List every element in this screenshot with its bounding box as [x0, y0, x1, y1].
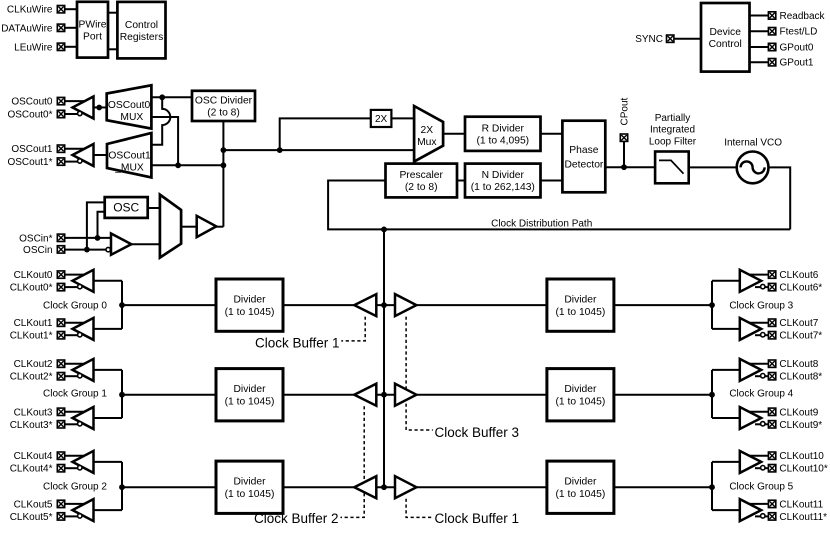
pin SYNC [667, 35, 674, 42]
junction [119, 392, 125, 398]
junction [95, 235, 101, 241]
svg-text:CLKout4*: CLKout4* [10, 464, 53, 475]
svg-text:Partially: Partially [655, 113, 691, 124]
inverting bubble [78, 422, 82, 426]
svg-text:CLKout3*: CLKout3* [10, 420, 53, 431]
inverting bubble [106, 247, 110, 251]
pin OSCin* [57, 234, 64, 241]
svg-text:CLKout9*: CLKout9* [779, 420, 822, 431]
svg-text:(2 to 8): (2 to 8) [207, 108, 240, 119]
wire [750, 15, 769, 17]
pin Readback [768, 12, 775, 19]
junction [119, 302, 125, 308]
wire [750, 30, 769, 32]
svg-text:CLKout1: CLKout1 [14, 318, 53, 329]
buffer clock buffer row2 left [354, 476, 376, 498]
wire [746, 411, 768, 413]
wire [711, 370, 713, 418]
junction [381, 392, 387, 398]
box N Divider [465, 164, 541, 198]
inverting bubble [761, 284, 765, 288]
svg-text:Prescaler: Prescaler [399, 170, 443, 181]
box R Divider [465, 117, 541, 151]
svg-text:Clock Group 5: Clock Group 5 [729, 481, 793, 492]
svg-text:CLKout5: CLKout5 [14, 499, 53, 510]
svg-text:Clock Group 4: Clock Group 4 [729, 388, 793, 399]
junction [159, 94, 165, 100]
svg-text:OSC: OSC [113, 201, 139, 215]
buffer OSCout1 output buffer [73, 144, 94, 166]
svg-text:(1 to 1045): (1 to 1045) [555, 397, 605, 408]
box OSC [105, 197, 148, 218]
wire [94, 417, 123, 419]
wire [746, 363, 768, 365]
wire [98, 212, 105, 238]
wire [689, 166, 737, 168]
callout Clock Buffer 1 (bottom) [406, 499, 433, 518]
mux OSCout0_MUX [107, 85, 152, 128]
svg-text:CLKout0*: CLKout0* [10, 283, 53, 294]
box Divider right [547, 461, 614, 513]
pin CLKout7 [768, 319, 775, 326]
svg-text:Clock Distribution Path: Clock Distribution Path [491, 219, 592, 230]
wire [674, 38, 701, 40]
inverting bubble [78, 159, 82, 163]
wire [65, 274, 88, 276]
callout Clock Buffer 2 [341, 406, 365, 517]
box 2X doubler [371, 110, 392, 127]
buffer CLKout5 output buffer [73, 499, 94, 521]
inverting bubble [78, 111, 82, 115]
pin CLKout5 [57, 500, 64, 507]
svg-text:(1 to 1045): (1 to 1045) [225, 397, 275, 408]
pin CLKout2 [57, 360, 64, 367]
svg-text:Port: Port [83, 31, 102, 42]
wire [122, 394, 216, 396]
buffer CLKout11 output buffer [740, 499, 761, 521]
svg-text:CLKout6*: CLKout6* [779, 283, 822, 294]
wire [750, 61, 769, 63]
pin CLKout6 [768, 271, 775, 278]
junction [84, 247, 90, 253]
wire row 1 [283, 394, 547, 396]
buffer CLKout7 output buffer [740, 318, 761, 340]
svg-text:N Divider: N Divider [482, 170, 525, 181]
wire [65, 46, 77, 48]
pin GPout1 [768, 59, 775, 66]
junction [709, 392, 715, 398]
wire [614, 394, 712, 396]
svg-text:CLKout9: CLKout9 [779, 407, 818, 418]
pin CLKout11 [768, 500, 775, 507]
svg-text:OSCin*: OSCin* [19, 233, 52, 244]
wire [65, 237, 111, 239]
svg-text:CLKout8*: CLKout8* [779, 372, 822, 383]
wire row 2 [283, 486, 547, 488]
junction [175, 162, 181, 168]
wire [712, 369, 740, 371]
svg-text:CLKout10: CLKout10 [779, 451, 824, 462]
svg-text:Divider: Divider [233, 384, 266, 395]
wire [65, 334, 78, 336]
pin CLKout5* [57, 513, 64, 520]
svg-text:Divider: Divider [233, 477, 266, 488]
svg-text:CLKout4: CLKout4 [14, 451, 53, 462]
svg-text:Readback: Readback [780, 11, 826, 22]
wire [108, 12, 117, 14]
wire VCO out [769, 167, 791, 229]
svg-text:CLKout11*: CLKout11* [779, 512, 827, 523]
wire [65, 249, 106, 251]
box Phase Detector [562, 121, 605, 193]
pin CLKout8 [768, 360, 775, 367]
wire clock distribution path [328, 181, 790, 230]
box Divider right [547, 279, 614, 331]
junction [381, 484, 387, 490]
svg-text:Clock Buffer 1: Clock Buffer 1 [435, 511, 520, 526]
wire [65, 322, 88, 324]
wire [750, 46, 769, 48]
wire [614, 486, 712, 488]
buffer CLKout3 output buffer [73, 407, 94, 429]
junction [119, 484, 125, 490]
svg-text:(1 to 1045): (1 to 1045) [555, 307, 605, 318]
wire [121, 370, 123, 418]
svg-text:Control: Control [709, 39, 742, 50]
svg-text:CLKout11: CLKout11 [779, 499, 823, 510]
wire [711, 462, 713, 510]
box PWire Port [77, 2, 108, 58]
svg-text:OSCout0: OSCout0 [11, 97, 53, 108]
svg-text:Divider: Divider [564, 477, 597, 488]
wire trunk [383, 229, 385, 487]
buffer CLKout6 output buffer [740, 270, 761, 292]
wire [131, 243, 160, 245]
junction [709, 484, 715, 490]
svg-text:Device: Device [709, 27, 741, 38]
pin CLKuWire [57, 6, 64, 13]
wire [65, 100, 88, 102]
buffer CLKout9 output buffer [740, 407, 761, 429]
wire [443, 133, 465, 135]
wire [541, 133, 563, 135]
wire [712, 417, 740, 419]
svg-text:OSCout1: OSCout1 [11, 144, 53, 155]
pin CLKout1 [57, 319, 64, 326]
wire [755, 423, 768, 425]
buffer clock buffer row0 right [395, 294, 416, 316]
wire row 0 [283, 304, 547, 306]
wire [121, 462, 123, 510]
wire [94, 280, 123, 282]
wire [711, 281, 713, 329]
wire [755, 375, 768, 377]
svg-text:LEuWire: LEuWire [14, 42, 53, 53]
svg-text:OSCout1: OSCout1 [108, 151, 151, 162]
pin CLKout3 [57, 408, 64, 415]
pin CLKout0* [57, 283, 64, 290]
svg-text:CLKout5*: CLKout5* [10, 512, 53, 523]
svg-text:Divider: Divider [233, 295, 266, 306]
box Control Registers [117, 2, 165, 59]
svg-text:CLKout0: CLKout0 [14, 270, 53, 281]
pin OSCin [57, 246, 64, 253]
wire [65, 455, 88, 457]
wire [65, 286, 78, 288]
svg-text:(1 to 1045): (1 to 1045) [225, 489, 275, 500]
box OSC Divider [192, 91, 255, 121]
pin CLKout11* [768, 513, 775, 520]
svg-text:CLKout6: CLKout6 [779, 270, 818, 281]
svg-text:CLKout2: CLKout2 [14, 359, 53, 370]
pin OSCout0 [57, 97, 64, 104]
wire [712, 509, 740, 511]
wire [65, 423, 78, 425]
wire [148, 207, 160, 209]
pin CLKout9* [768, 421, 775, 428]
svg-text:2X: 2X [420, 125, 433, 136]
wire [391, 117, 414, 119]
pin CLKout4* [57, 465, 64, 472]
svg-text:(1 to 4,095): (1 to 4,095) [476, 135, 529, 146]
filter box [655, 152, 689, 184]
pin LEuWire [57, 43, 64, 50]
wire [216, 226, 223, 228]
buffer input path buffer [197, 216, 217, 237]
inverting bubble [761, 333, 765, 337]
wire [94, 106, 107, 108]
pin CLKout2* [57, 373, 64, 380]
wire [94, 154, 108, 156]
svg-text:OSCout0: OSCout0 [108, 100, 151, 111]
callout Clock Buffer 1 [341, 317, 365, 341]
pin OSCout0* [57, 110, 64, 117]
junction [621, 164, 627, 170]
buffer CLKout1 output buffer [73, 318, 94, 340]
pin OSCout1 [57, 145, 64, 152]
wire [746, 455, 768, 457]
junction [381, 227, 387, 233]
svg-text:(1 to 1045): (1 to 1045) [555, 489, 605, 500]
wire [181, 226, 197, 228]
inverting bubble [761, 374, 765, 378]
svg-text:Integrated: Integrated [650, 125, 695, 136]
inverting bubble [78, 333, 82, 337]
svg-text:_MUX: _MUX [114, 163, 144, 174]
pin CLKout1* [57, 332, 64, 339]
svg-text:CLKout8: CLKout8 [779, 359, 818, 370]
wire [94, 461, 123, 463]
junction [221, 147, 227, 153]
wire [755, 334, 768, 336]
svg-text:Clock Group 3: Clock Group 3 [729, 301, 793, 312]
wire [65, 363, 88, 365]
wire with hop [151, 97, 170, 144]
pin CLKout6* [768, 283, 775, 290]
inverting bubble [761, 514, 765, 518]
svg-text:CLKout7*: CLKout7* [779, 331, 822, 342]
buffer clock buffer row0 left [354, 294, 376, 316]
wire [755, 515, 768, 517]
svg-text:Detector: Detector [564, 159, 603, 170]
pin CPout [620, 134, 627, 141]
mux OSCout1_MUX [107, 133, 151, 178]
wire [746, 322, 768, 324]
svg-text:Ftest/LD: Ftest/LD [780, 27, 818, 38]
pin CLKout9 [768, 408, 775, 415]
svg-text:OSCout1*: OSCout1* [7, 157, 52, 168]
wire [223, 149, 414, 151]
svg-text:CLKout3: CLKout3 [14, 407, 53, 418]
svg-text:R Divider: R Divider [482, 123, 525, 134]
wire [605, 166, 655, 168]
wire [746, 503, 768, 505]
box Divider left [216, 279, 283, 331]
svg-text:Registers: Registers [120, 32, 164, 43]
inverting bubble [78, 466, 82, 470]
svg-text:Clock Group 0: Clock Group 0 [43, 301, 107, 312]
svg-text:CLKout7: CLKout7 [779, 318, 818, 329]
buffer clock buffer row1 left [354, 384, 376, 406]
buffer OSCout0 output buffer [73, 97, 94, 119]
pin CLKout7* [768, 332, 775, 339]
pin CLKout10* [768, 465, 775, 472]
svg-text:CLKout10*: CLKout10* [779, 464, 827, 475]
junction [221, 162, 227, 168]
svg-text:Clock Buffer 1: Clock Buffer 1 [255, 336, 340, 351]
wire [457, 180, 465, 182]
box Divider left [216, 369, 283, 421]
svg-text:(2 to 8): (2 to 8) [405, 182, 438, 193]
svg-text:Clock Group 2: Clock Group 2 [43, 481, 107, 492]
buffer CLKout8 output buffer [740, 359, 761, 381]
pin DATAuWire [57, 24, 64, 31]
wire [755, 467, 768, 469]
wire [280, 118, 371, 150]
svg-text:Phase: Phase [569, 145, 598, 156]
svg-text:CLKout2*: CLKout2* [10, 372, 53, 383]
wire [65, 161, 78, 163]
buffer CLKout4 output buffer [73, 451, 94, 473]
wire [541, 180, 563, 182]
wire [122, 486, 216, 488]
box Divider left [216, 461, 283, 513]
pin Ftest/LD [768, 28, 775, 35]
inverting bubble [78, 514, 82, 518]
callout Clock Buffer 3 [406, 317, 433, 430]
junction [709, 302, 715, 308]
buffer OSCin input buffer [111, 234, 131, 255]
svg-text:SYNC: SYNC [635, 34, 663, 45]
wire trunk [222, 121, 224, 227]
svg-text:Loop Filter: Loop Filter [649, 137, 697, 148]
svg-text:Internal VCO: Internal VCO [724, 138, 782, 149]
wire [65, 113, 78, 115]
buffer clock buffer row1 right [395, 384, 416, 406]
box Prescaler [386, 164, 458, 198]
buffer CLKout0 output buffer [73, 270, 94, 292]
wire [712, 280, 740, 282]
wire [614, 304, 712, 306]
svg-text:GPout0: GPout0 [780, 43, 814, 54]
pin CLKout8* [768, 373, 775, 380]
svg-text:Clock Group 1: Clock Group 1 [43, 388, 107, 399]
buffer CLKout2 output buffer [73, 359, 94, 381]
wire CPout stub [623, 142, 625, 168]
wire [65, 515, 78, 517]
svg-text:_MUX: _MUX [114, 112, 144, 123]
pin CLKout3* [57, 421, 64, 428]
wire [65, 148, 88, 150]
box Device Control [701, 3, 750, 72]
buffer CLKout10 output buffer [740, 451, 761, 473]
wire [87, 202, 105, 249]
wire [94, 509, 123, 511]
wire [65, 503, 88, 505]
svg-text:GPout1: GPout1 [780, 58, 814, 69]
wire [108, 48, 117, 50]
pin CLKout10 [768, 452, 775, 459]
svg-text:CLKout1*: CLKout1* [10, 331, 53, 342]
svg-text:Control: Control [125, 20, 158, 31]
svg-text:OSC Divider: OSC Divider [195, 96, 253, 107]
inverting bubble [761, 422, 765, 426]
wire [65, 467, 78, 469]
wire [151, 117, 178, 165]
svg-text:Divider: Divider [564, 295, 597, 306]
junction [96, 105, 102, 111]
svg-text:OSCin: OSCin [23, 245, 52, 256]
wire [94, 369, 123, 371]
svg-text:CLKuWire: CLKuWire [7, 5, 53, 16]
wire [121, 281, 123, 329]
wire [65, 8, 77, 10]
wire [151, 164, 223, 166]
wire [712, 461, 740, 463]
svg-text:(1 to 262,143): (1 to 262,143) [471, 182, 535, 193]
wire [746, 274, 768, 276]
box Divider right [547, 369, 614, 421]
pin CLKout4 [57, 452, 64, 459]
svg-text:Divider: Divider [564, 384, 597, 395]
wire [65, 27, 77, 29]
pin GPout0 [768, 43, 775, 50]
wire [65, 411, 88, 413]
svg-text:PWire: PWire [78, 19, 106, 30]
pin OSCout1* [57, 158, 64, 165]
wire [65, 375, 78, 377]
inverting bubble [78, 284, 82, 288]
wire [712, 328, 740, 330]
inverting bubble [78, 374, 82, 378]
svg-text:Clock Buffer 3: Clock Buffer 3 [435, 425, 520, 440]
svg-text:2X: 2X [375, 114, 388, 125]
pin CLKout0 [57, 271, 64, 278]
wire [151, 96, 192, 98]
buffer clock buffer row2 right [395, 476, 416, 498]
junction [277, 147, 283, 153]
svg-text:CPout: CPout [620, 97, 631, 125]
wire [122, 304, 216, 306]
svg-text:(1 to 1045): (1 to 1045) [225, 307, 275, 318]
junction [381, 302, 387, 308]
mux input selector [160, 195, 181, 258]
wire [94, 328, 123, 330]
svg-text:Mux: Mux [417, 137, 437, 148]
svg-text:DATAuWire: DATAuWire [1, 23, 53, 34]
mux 2X Mux [414, 106, 443, 162]
wire [755, 286, 768, 288]
